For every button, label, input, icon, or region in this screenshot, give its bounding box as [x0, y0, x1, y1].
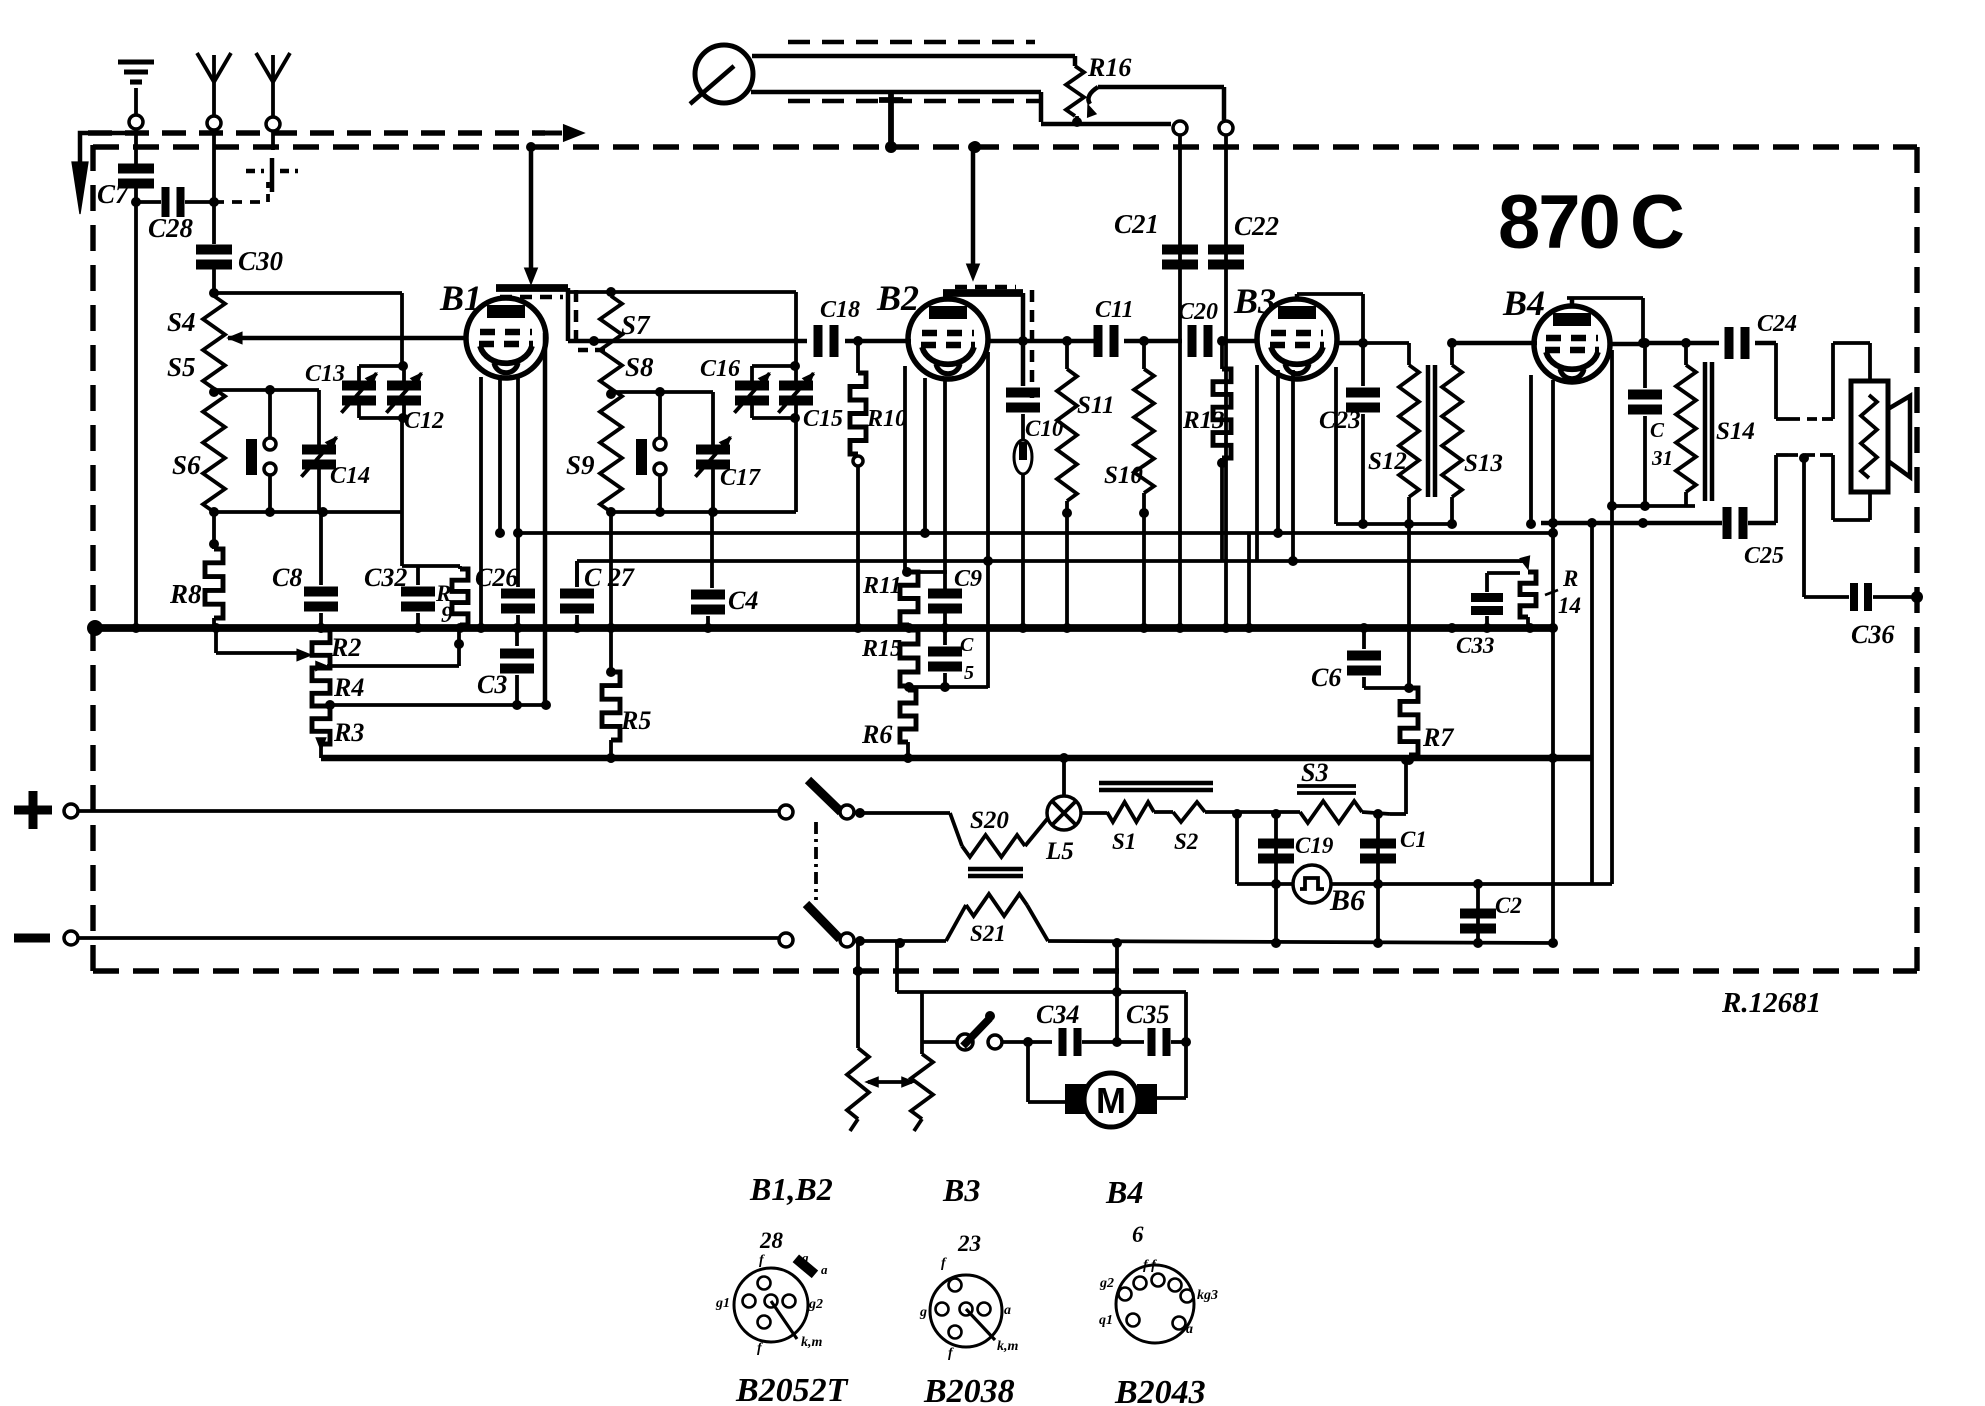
- svg-text:C16: C16: [700, 356, 740, 382]
- svg-text:kg3: kg3: [1197, 1288, 1218, 1303]
- svg-text:9: 9: [441, 602, 453, 627]
- svg-text:g2: g2: [1099, 1276, 1114, 1291]
- svg-text:g: g: [801, 1250, 809, 1265]
- svg-text:a: a: [1186, 1322, 1193, 1337]
- svg-text:R.12681: R.12681: [1721, 987, 1821, 1019]
- svg-text:S10: S10: [1104, 462, 1143, 489]
- svg-text:S4: S4: [167, 307, 196, 337]
- svg-text:R13: R13: [1182, 407, 1225, 434]
- svg-text:B2043: B2043: [1114, 1374, 1206, 1406]
- svg-text:C 27: C 27: [584, 563, 635, 592]
- svg-text:S7: S7: [621, 310, 651, 340]
- svg-text:C2: C2: [1495, 893, 1522, 918]
- svg-text:S1: S1: [1112, 829, 1136, 854]
- svg-text:R5: R5: [620, 706, 651, 735]
- svg-text:C10: C10: [1025, 416, 1064, 441]
- svg-text:q1: q1: [1099, 1313, 1113, 1328]
- svg-text:28: 28: [759, 1228, 784, 1253]
- svg-text:C19: C19: [1295, 833, 1334, 858]
- svg-text:C36: C36: [1851, 620, 1894, 649]
- svg-text:C4: C4: [728, 586, 758, 615]
- svg-text:S5: S5: [167, 352, 196, 382]
- svg-text:f f: f f: [1143, 1258, 1157, 1273]
- svg-text:R: R: [1562, 566, 1578, 591]
- svg-text:B6: B6: [1329, 884, 1365, 917]
- svg-text:B2052T: B2052T: [735, 1372, 849, 1406]
- svg-text:C20: C20: [1178, 299, 1218, 325]
- svg-text:C35: C35: [1126, 1000, 1169, 1029]
- svg-text:S11: S11: [1077, 392, 1115, 419]
- svg-text:14: 14: [1558, 593, 1581, 618]
- svg-text:870: 870: [1498, 180, 1619, 265]
- svg-text:g2: g2: [808, 1297, 823, 1312]
- svg-text:S8: S8: [625, 352, 654, 382]
- svg-text:C3: C3: [477, 670, 507, 699]
- svg-text:C8: C8: [272, 563, 302, 592]
- svg-text:C7: C7: [97, 179, 130, 209]
- svg-text:C23: C23: [1319, 407, 1361, 434]
- svg-text:31: 31: [1651, 446, 1673, 470]
- svg-text:S20: S20: [970, 807, 1009, 834]
- svg-text:R6: R6: [861, 720, 892, 749]
- svg-text:S9: S9: [566, 450, 595, 480]
- svg-text:R7: R7: [1422, 723, 1454, 752]
- svg-text:S13: S13: [1464, 450, 1503, 477]
- svg-text:23: 23: [957, 1231, 981, 1256]
- svg-text:k,m: k,m: [997, 1339, 1019, 1354]
- svg-text:B2: B2: [876, 278, 919, 318]
- svg-text:S21: S21: [970, 921, 1006, 946]
- svg-text:B4: B4: [1502, 283, 1545, 323]
- svg-text:S12: S12: [1368, 448, 1407, 475]
- svg-text:C21: C21: [1114, 209, 1159, 239]
- svg-text:5: 5: [964, 662, 974, 684]
- svg-text:C14: C14: [330, 463, 370, 489]
- svg-text:k,m: k,m: [801, 1335, 823, 1350]
- svg-text:R15: R15: [861, 636, 902, 662]
- svg-text:C34: C34: [1036, 1000, 1079, 1029]
- svg-text:B3: B3: [1233, 281, 1276, 321]
- svg-text:g1: g1: [715, 1296, 730, 1311]
- svg-text:B1,B2: B1,B2: [749, 1171, 833, 1207]
- svg-text:R8: R8: [169, 579, 202, 609]
- svg-text:a: a: [821, 1262, 828, 1277]
- svg-text:g: g: [919, 1305, 927, 1320]
- svg-text:C12: C12: [404, 408, 444, 434]
- svg-text:a: a: [1004, 1303, 1011, 1318]
- svg-text:C32: C32: [364, 563, 407, 592]
- svg-text:C1: C1: [1400, 827, 1427, 852]
- svg-text:C30: C30: [238, 246, 284, 276]
- svg-text:R11: R11: [862, 573, 902, 599]
- svg-text:C: C: [1650, 418, 1665, 442]
- svg-text:R16: R16: [1087, 53, 1131, 82]
- svg-text:B2038: B2038: [923, 1373, 1015, 1406]
- svg-text:6: 6: [1132, 1222, 1144, 1247]
- svg-text:L5: L5: [1045, 838, 1074, 865]
- svg-text:R4: R4: [333, 673, 364, 702]
- svg-text:C24: C24: [1757, 311, 1797, 337]
- svg-text:C9: C9: [954, 566, 982, 592]
- svg-text:C26: C26: [475, 563, 518, 592]
- svg-text:C11: C11: [1095, 297, 1134, 323]
- svg-text:C: C: [1630, 180, 1685, 265]
- svg-text:R2: R2: [330, 633, 361, 662]
- svg-text:S2: S2: [1174, 829, 1198, 854]
- svg-text:S14: S14: [1716, 418, 1755, 445]
- svg-text:C6: C6: [1311, 663, 1341, 692]
- svg-text:C25: C25: [1744, 543, 1784, 569]
- svg-text:C28: C28: [148, 213, 194, 243]
- svg-text:C17: C17: [720, 465, 761, 491]
- svg-text:B4: B4: [1105, 1174, 1143, 1210]
- svg-text:S6: S6: [172, 450, 201, 480]
- svg-text:C15: C15: [803, 406, 843, 432]
- svg-text:S3: S3: [1301, 758, 1328, 787]
- svg-text:B3: B3: [942, 1172, 980, 1208]
- svg-text:B1: B1: [439, 278, 482, 318]
- svg-text:C: C: [960, 634, 974, 656]
- svg-text:C13: C13: [305, 361, 345, 387]
- svg-text:M: M: [1096, 1080, 1126, 1121]
- svg-text:C22: C22: [1234, 211, 1279, 241]
- svg-text:R10: R10: [866, 406, 907, 432]
- svg-text:C18: C18: [820, 297, 860, 323]
- svg-text:C33: C33: [1456, 633, 1494, 658]
- svg-text:R3: R3: [333, 718, 364, 747]
